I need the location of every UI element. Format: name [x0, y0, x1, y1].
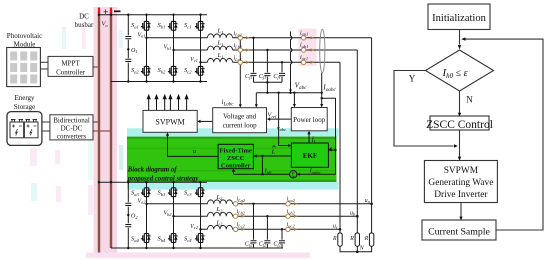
neutral rail N: [340, 246, 372, 252]
Power loop box: [291, 108, 327, 131]
junction dots on rails: [98, 14, 202, 83]
svg-text:Controller: Controller: [221, 163, 251, 170]
current sensor iLb2: [233, 214, 237, 218]
IGBT Sb3: [168, 186, 178, 198]
svg-text:Photovoltaic: Photovoltaic: [7, 32, 42, 40]
DC busbar left line: [98, 11, 100, 253]
node O2 dot: [127, 214, 129, 216]
svg-text:Ih0 ≤ ε: Ih0 ≤ ε: [442, 67, 468, 80]
IGBT Sa4: [141, 232, 151, 244]
initialization box: [428, 4, 490, 30]
filter cap drops from phase lines: [254, 38, 283, 93]
branch from L-hat line down to Ih0 line: [261, 156, 263, 174]
SVPWM Generating Wave Drive Inverter box: [424, 161, 497, 203]
current sensor iob2: [286, 214, 290, 218]
bottom DC rail: [111, 81, 207, 83]
capacitor Cf1 a: [251, 73, 257, 75]
cap bottom rail: [254, 81, 283, 83]
resistor R phase b: [355, 233, 359, 246]
svg-text:Va1: Va1: [137, 32, 145, 38]
MPPT Controller box: [48, 56, 93, 76]
capacitor Cf1 c: [279, 73, 285, 75]
wire ZSCC to SVPWM box: [459, 130, 461, 158]
svg-text:ioa1: ioa1: [300, 30, 308, 36]
phase wires A B C from bridge legs: [147, 38, 372, 63]
faint scan artifact streaks: [30, 27, 251, 215]
svg-text:uc: uc: [333, 223, 338, 229]
wire phase B1: [174, 49, 358, 51]
bridge leg c: [200, 15, 202, 82]
Ih0 line sigma to ZSCC bottom: [234, 171, 290, 174]
bottom DC rail (bottom bridge): [111, 247, 283, 249]
SVPWM box: [143, 110, 197, 132]
IGBT Sb1: [168, 20, 178, 32]
svg-text:DC: DC: [79, 13, 89, 21]
bridge legs: [146, 182, 148, 248]
svg-text:ioc1: ioc1: [300, 55, 308, 61]
cyan highlight band upper: [127, 128, 339, 136]
wire phase C2: [201, 228, 341, 230]
red terminal tick +: [98, 8, 100, 14]
node u_a: [370, 203, 373, 206]
iL sensor vertical line to controller: [239, 38, 241, 106]
N branch wire: [459, 91, 461, 114]
wire phase C vertical: [339, 62, 341, 233]
tan arrows after iL sensors: [246, 36, 249, 39]
svg-text:+: +: [103, 8, 108, 18]
svg-text:O2: O2: [131, 214, 138, 220]
dc-link capacitor upper: [125, 37, 131, 39]
svg-text:Cf1: Cf1: [259, 74, 266, 80]
Y branch wire: [394, 71, 454, 147]
svg-text:iLa2: iLa2: [237, 197, 246, 203]
wire phase A vertical: [371, 38, 373, 233]
u signal line ZSCC to SVPWM: [168, 135, 219, 157]
svg-text:iLb1: iLb1: [234, 43, 243, 49]
svg-text:Vc1: Vc1: [190, 57, 198, 63]
dc-link capacitor lower: [125, 59, 131, 61]
drop into Power loop: [293, 93, 295, 106]
svg-text:iLc2: iLc2: [237, 222, 246, 228]
svg-text:Fixed-Time: Fixed-Time: [219, 148, 252, 155]
wire PV to MPPT (two lines): [40, 62, 48, 69]
current sensor iLb1: [238, 48, 242, 52]
wire phase A2: [147, 203, 372, 205]
svg-text:DC-DC: DC-DC: [61, 125, 83, 133]
svg-text:EKF: EKF: [303, 152, 317, 160]
svg-text:proposed control strategy: proposed control strategy: [127, 175, 200, 182]
svg-text:Block diagram of: Block diagram of: [127, 167, 177, 174]
svg-text:iob2: iob2: [287, 209, 296, 215]
Current Sample box: [422, 220, 496, 240]
drop into Voltage and current loop: [255, 93, 257, 106]
svg-text:ZSCC Control: ZSCC Control: [426, 119, 493, 131]
pink smear strip at bottom: [86, 253, 310, 259]
svg-text:ioa2: ioa2: [287, 197, 296, 203]
pink highlight behind output current sensors: [299, 29, 317, 67]
photovoltaic module icon: [7, 48, 41, 87]
summation node sigma: [290, 171, 297, 178]
svg-text:Power loop: Power loop: [293, 116, 326, 124]
svg-text:R: R: [349, 236, 354, 242]
svg-text:ioc2: ioc2: [287, 222, 296, 228]
svg-text:Vb2: Vb2: [163, 211, 172, 217]
filter cap drops (bottom): [254, 204, 283, 248]
svg-text:Initialization: Initialization: [432, 13, 486, 24]
dc-link capacitor upper (bottom bridge): [125, 203, 131, 205]
svg-text:ua: ua: [365, 198, 370, 204]
inductor L1 phase c: [208, 58, 233, 62]
dc-link capacitor leg (bottom): [127, 182, 129, 248]
svg-text:Vb1: Vb1: [163, 45, 171, 51]
dc-link capacitor leg: [127, 15, 129, 82]
Power loop to V&C loop Vref arrow: [269, 118, 291, 120]
top DC rail: [99, 14, 207, 16]
capacitor Cf2 a: [251, 241, 257, 243]
wire init to diamond: [459, 30, 461, 45]
svg-text:current loop: current loop: [223, 121, 258, 129]
svg-text:Cf2: Cf2: [259, 241, 267, 247]
IGBT Sc3: [195, 186, 205, 198]
bridge leg a: [146, 15, 148, 82]
svg-text:Current Sample: Current Sample: [428, 226, 490, 237]
svg-text:N: N: [466, 95, 473, 105]
svg-text:converters: converters: [57, 133, 86, 141]
svg-text:Voltage and: Voltage and: [223, 112, 257, 120]
IGBT Sa2: [141, 65, 151, 77]
L-hat arrow EKF to ZSCC: [256, 155, 292, 157]
wire phase C1: [201, 61, 341, 63]
svg-text:R: R: [332, 236, 337, 242]
svg-text:Bidirectional: Bidirectional: [53, 117, 90, 125]
IGBT Sc2: [195, 65, 205, 77]
feedback wire right side: [465, 39, 544, 230]
current sensor iLa1: [238, 36, 242, 40]
EKF box: [291, 143, 328, 167]
phase wires A2 B2 C2: [147, 204, 372, 230]
current sensor iLc1: [238, 60, 242, 64]
svg-text:Y: Y: [409, 74, 416, 84]
capacitor Cf2 c: [279, 241, 285, 243]
svg-text:MPPT: MPPT: [61, 60, 80, 68]
wire SVPWM to Current Sample: [460, 203, 462, 218]
capacitor Cf1 b: [264, 73, 270, 75]
EKF right input tap: [331, 149, 336, 151]
top DC rail (bottom bridge): [99, 181, 207, 183]
svg-text:Controller: Controller: [56, 69, 85, 77]
current sensor iLa2: [233, 202, 237, 206]
energy storage battery icon: [7, 112, 42, 146]
green highlight band of proposed control strategy: [127, 137, 337, 182]
svg-text:Vc2: Vc2: [190, 224, 199, 230]
EKF IL-hat arrow up to Power loop: [308, 133, 310, 143]
IGBT Sa1: [141, 20, 151, 32]
V&C loop to SVPWM arrow: [200, 120, 213, 122]
inductor L1 phase b: [208, 46, 233, 50]
svg-text:Storage: Storage: [14, 103, 35, 111]
six gate drive arrows from SVPWM up: [149, 98, 187, 111]
node u_b: [356, 215, 359, 218]
wire battery to DC-DC (two lines): [42, 122, 50, 131]
IGBT Sb4: [168, 232, 178, 244]
DC busbar pink highlight band: [94, 7, 118, 254]
svg-text:Σ: Σ: [291, 172, 295, 179]
measurement bus: [256, 92, 321, 94]
wire MPPT to DC bus: [93, 66, 99, 68]
svg-text:iLa1: iLa1: [234, 31, 243, 37]
Voltage and current loop box: [213, 108, 267, 133]
Bidirectional DC-DC converters box: [50, 115, 93, 140]
inductor L2 phase a: [208, 200, 233, 204]
svg-text:Drive Inverter: Drive Inverter: [434, 190, 488, 200]
svg-text:ZSCC: ZSCC: [227, 155, 245, 162]
wire phase A1: [147, 37, 372, 39]
inductor L2 phase b: [208, 212, 233, 216]
wire DC-DC to right bus line: [93, 130, 111, 132]
dc-link capacitor lower (bottom bridge): [125, 225, 131, 227]
Fixed-Time ZSCC Controller box: [218, 144, 253, 168]
svg-text:iob1: iob1: [300, 43, 308, 49]
svg-text:Cf2: Cf2: [245, 241, 253, 247]
IGBT Sc1: [195, 20, 205, 32]
IGBT Sa3: [141, 186, 151, 198]
v_abc line down to EKF: [279, 93, 289, 146]
inductor L2 phase c: [208, 225, 233, 229]
bridge leg b: [173, 15, 175, 82]
cyan highlight band lower: [127, 182, 339, 190]
svg-text:ub: ub: [350, 211, 355, 217]
red terminal tick -: [110, 8, 112, 14]
current sensor ioc1: [301, 60, 305, 64]
current sensor ioa1: [301, 36, 305, 40]
inductor current labels top: [234, 30, 309, 228]
svg-text:Energy: Energy: [14, 94, 35, 102]
node O1 dot: [127, 48, 129, 50]
IGBT Sc4: [195, 232, 205, 244]
svg-text:vabc: vabc: [277, 126, 286, 132]
DC busbar right line: [110, 11, 112, 249]
svg-text:SVPWM: SVPWM: [155, 118, 184, 127]
svg-text:iLc1: iLc1: [234, 56, 242, 62]
svg-text:busbar: busbar: [75, 21, 94, 29]
svg-text:Cf2: Cf2: [273, 241, 281, 247]
resistor R phase a: [369, 233, 373, 246]
V_abc sense line with hops: [291, 32, 292, 91]
svg-text:Generating Wave: Generating Wave: [428, 178, 493, 188]
svg-text:Cf1: Cf1: [273, 74, 280, 80]
wire DC-DC to left bus line: [93, 121, 99, 123]
capacitor Cf2 b: [264, 241, 270, 243]
measurement ellipse over three phases: [320, 29, 325, 73]
svg-text:Cf1: Cf1: [245, 74, 252, 80]
current sensor ioc2: [286, 227, 290, 231]
svg-text:Va2: Va2: [137, 198, 146, 204]
svg-text:SVPWM: SVPWM: [444, 166, 479, 176]
inductor L1 phase a: [208, 34, 233, 38]
resistor R phase c: [338, 233, 342, 246]
sigma feed line from I_oabc: [299, 98, 335, 174]
ZSCC Control box: [430, 116, 489, 130]
node u_c: [339, 228, 342, 231]
current sensor iob1: [301, 48, 305, 52]
decision diamond: [426, 50, 494, 91]
svg-text:L: L: [271, 149, 276, 156]
svg-text:iLb2: iLb2: [237, 209, 246, 215]
current sensor iLc2: [233, 227, 237, 231]
wire phase B vertical: [356, 50, 358, 233]
svg-text:O1: O1: [131, 48, 138, 54]
IGBT Sb2: [168, 65, 178, 77]
wire phase B2: [174, 215, 358, 217]
I_oabc drop from ellipse: [321, 73, 323, 105]
center drop to measurement bus: [266, 82, 268, 92]
svg-text:R: R: [364, 236, 369, 242]
current sensor ioa2: [286, 202, 290, 206]
svg-text:Module: Module: [14, 41, 36, 49]
